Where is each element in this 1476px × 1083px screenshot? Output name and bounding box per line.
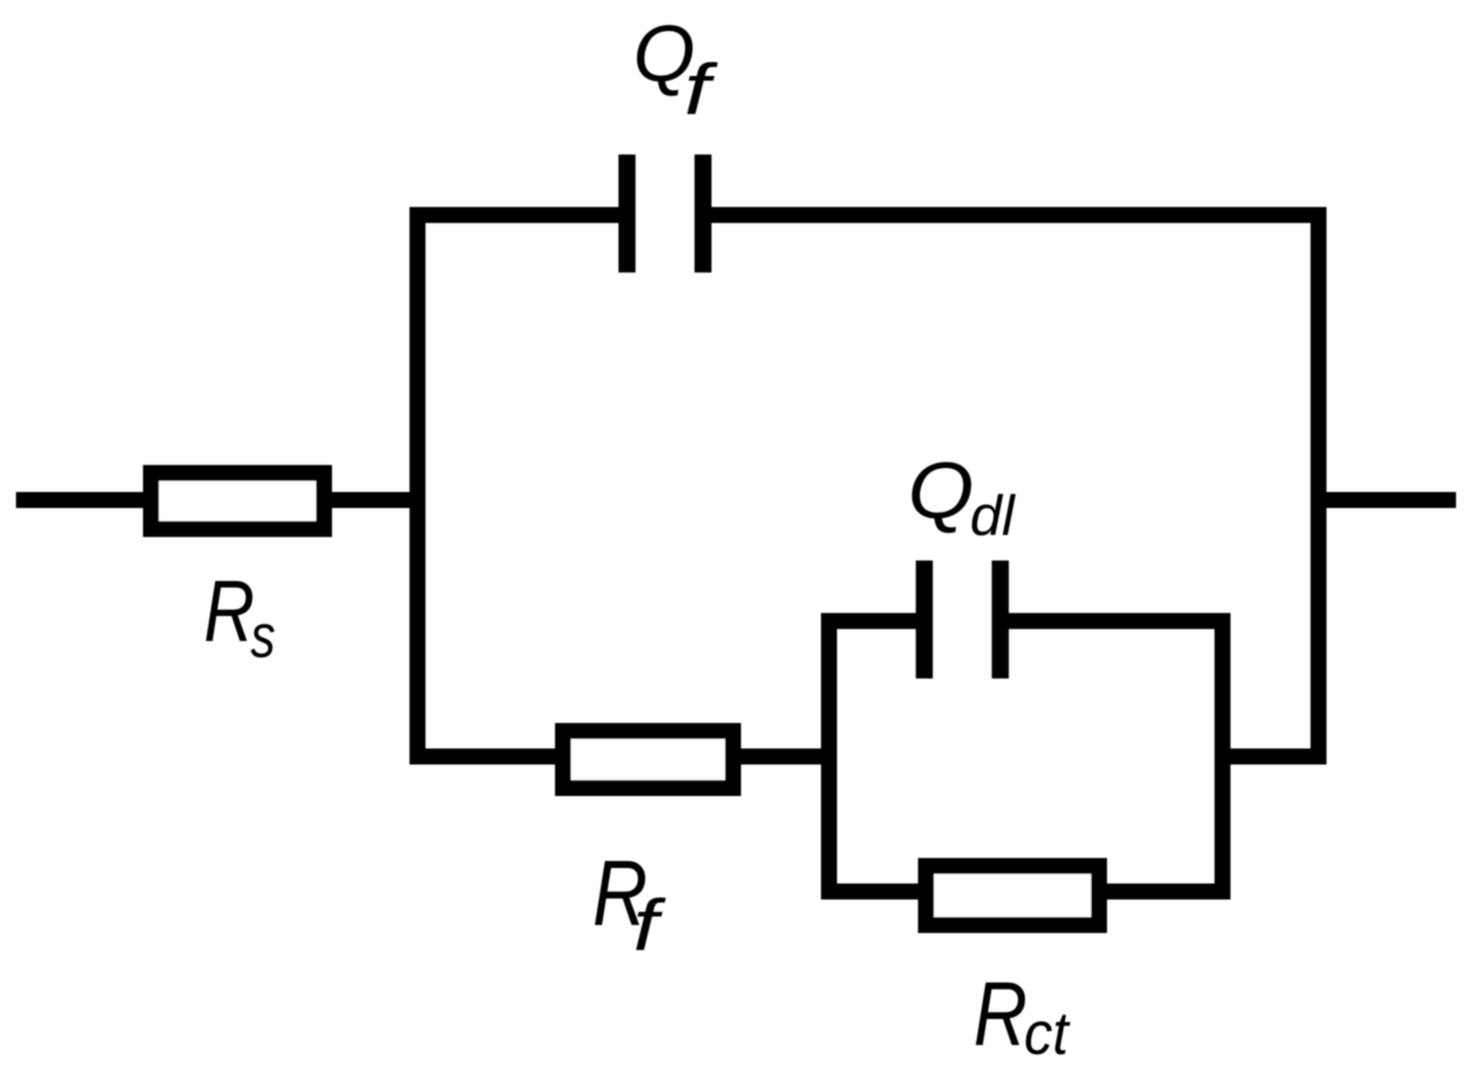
- svg-text:Q: Q: [908, 445, 974, 535]
- wire right terminal: [1327, 492, 1457, 508]
- wire outer left vertical: [410, 207, 426, 765]
- capacitor Qf left plate: [619, 155, 636, 273]
- label Rct: [974, 963, 1071, 1067]
- wire inner right vertical: [1215, 613, 1231, 900]
- wire Rf to inner loop: [733, 749, 837, 765]
- svg-text:ct: ct: [1024, 1001, 1071, 1068]
- wire inner left vertical: [821, 613, 837, 900]
- wire Rs to node A: [324, 492, 426, 508]
- svg-text:dl: dl: [970, 484, 1016, 548]
- label Rs: [204, 562, 276, 670]
- wire bottom branch left: [410, 749, 571, 765]
- wire inner loop to outer right: [1215, 749, 1327, 765]
- wire inner top left: [821, 613, 924, 629]
- svg-text:R: R: [204, 562, 255, 660]
- capacitor Qf right plate: [695, 155, 712, 273]
- capacitor Qdl right plate: [992, 561, 1009, 679]
- capacitor Qdl left plate: [916, 561, 933, 679]
- wire inner bottom right: [1091, 884, 1231, 900]
- label Rf: [593, 842, 667, 966]
- wire outer top left: [410, 207, 628, 223]
- wire inner bottom left: [821, 884, 934, 900]
- wire left terminal: [16, 492, 160, 508]
- resistor Rs: [151, 473, 324, 529]
- wire outer right vertical: [1311, 207, 1327, 765]
- label Qf: [633, 9, 719, 129]
- resistor Rct: [926, 866, 1099, 925]
- resistor Rf: [563, 731, 733, 788]
- wire outer top right: [703, 207, 1327, 223]
- label Qdl: [908, 445, 1016, 548]
- wire inner top right: [1000, 613, 1230, 629]
- svg-text:s: s: [251, 602, 276, 670]
- svg-text:R: R: [974, 963, 1028, 1065]
